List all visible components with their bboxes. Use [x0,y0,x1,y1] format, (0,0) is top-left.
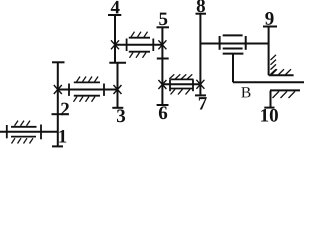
svg-text:1: 1 [58,126,68,147]
svg-text:3: 3 [116,106,126,127]
svg-text:10: 10 [260,106,279,127]
svg-text:2: 2 [60,99,70,120]
svg-text:6: 6 [158,103,168,124]
svg-text:8: 8 [196,0,206,17]
svg-text:7: 7 [198,94,208,115]
svg-text:4: 4 [110,0,120,18]
svg-text:9: 9 [265,9,275,30]
svg-text:B: B [241,84,251,101]
svg-text:5: 5 [158,9,168,30]
